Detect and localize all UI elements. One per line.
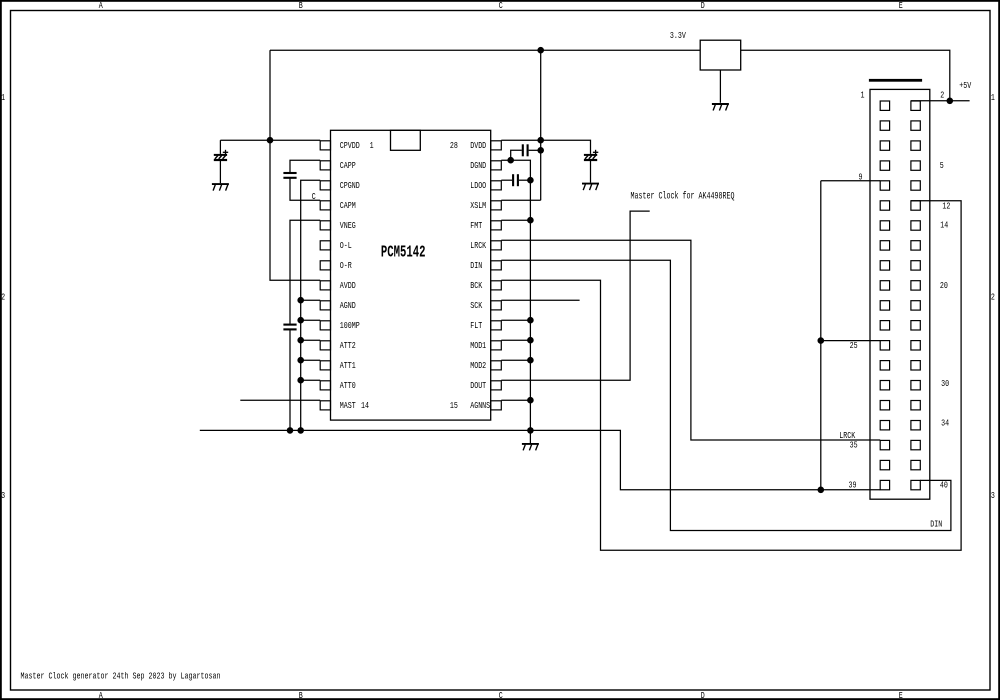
svg-text:D: D — [701, 690, 705, 700]
connector J1 pin 34 — [911, 421, 920, 430]
svg-text:O-R: O-R — [340, 260, 352, 271]
wire CPGND rail — [301, 180, 321, 430]
U1 pin box AVDD — [320, 281, 330, 290]
connector J1 pin 38 — [911, 460, 920, 469]
svg-text:AGNNS: AGNNS — [470, 400, 490, 411]
svg-text:C: C — [499, 0, 503, 11]
capacitor C6 bottom lead — [590, 160, 592, 183]
junction FLT / DGND rail — [527, 317, 534, 324]
connector J1 pin 16 — [911, 241, 920, 250]
capacitor C4 left lead / LDOO — [501, 179, 512, 181]
svg-text:Master Clock for AK4498REQ: Master Clock for AK4498REQ — [631, 190, 735, 202]
svg-text:CPGND: CPGND — [340, 180, 360, 191]
svg-text:+5V: +5V — [959, 80, 971, 91]
svg-text:CAPP: CAPP — [340, 160, 356, 171]
svg-text:MAST: MAST — [340, 400, 356, 411]
svg-text:9: 9 — [859, 171, 863, 182]
svg-text:FLT: FLT — [470, 320, 482, 331]
svg-text:ATT1: ATT1 — [340, 360, 356, 371]
svg-text:BCK: BCK — [470, 280, 482, 291]
capacitor C3 left lead — [511, 150, 522, 160]
svg-text:25: 25 — [850, 340, 858, 351]
capacitor C4 right lead — [519, 179, 531, 181]
svg-text:ATT0: ATT0 — [340, 380, 356, 391]
svg-text:FMT: FMT — [470, 220, 482, 231]
svg-text:PCM5142: PCM5142 — [381, 243, 426, 262]
svg-text:3.3V: 3.3V — [670, 30, 686, 41]
svg-text:E: E — [899, 690, 903, 700]
connector J1 pin 32 — [911, 401, 920, 410]
svg-text:40: 40 — [940, 479, 948, 490]
U1 orientation notch — [391, 130, 421, 150]
svg-text:E: E — [899, 0, 903, 11]
junction CPGND rail / ground rail — [297, 427, 304, 434]
wire ground vertical to header — [820, 181, 822, 490]
wire MOD2 — [501, 359, 530, 361]
connector J1 pin 21 — [880, 301, 889, 310]
U1 pin box DOUT — [491, 381, 502, 390]
connector J1 pin 2 — [911, 101, 920, 110]
svg-text:DOUT: DOUT — [470, 380, 486, 391]
wire 3.3V rail drop to DVDD/XSLM — [540, 50, 542, 200]
U1 pin box FLT — [491, 321, 502, 330]
capacitor C2 (VNEG bypass) — [283, 325, 296, 330]
U1 pin box VNEG — [320, 221, 330, 230]
connector J1 pin 33 — [880, 421, 889, 430]
svg-text:DGND: DGND — [470, 160, 486, 171]
svg-text:ATT2: ATT2 — [340, 340, 356, 351]
wire BCK net — [501, 201, 961, 551]
connector J1 pin 24 — [911, 321, 920, 330]
capacitor C5 bottom lead — [219, 160, 221, 183]
connector J1 pin 31 — [880, 401, 889, 410]
svg-text:2: 2 — [1, 292, 5, 303]
U1 pin box AGND — [320, 301, 330, 310]
svg-text:15: 15 — [450, 400, 458, 411]
connector J1 pin 28 — [911, 361, 920, 370]
U1 pin box ATT1 — [320, 361, 330, 370]
ground below regulator — [712, 104, 729, 111]
svg-text:2: 2 — [991, 292, 995, 303]
wire MOD1 — [501, 339, 530, 341]
U1 pin box XSLM — [491, 201, 502, 210]
capacitor C3 (DVDD-DGND) — [523, 144, 528, 156]
U1 pin box BCK — [491, 281, 502, 290]
ground below C5 — [212, 184, 229, 191]
wire LRCK net — [501, 240, 880, 440]
wire MAST stub — [240, 399, 320, 401]
voltage regulator 3.3V — [700, 40, 741, 70]
svg-text:LRCK: LRCK — [470, 240, 486, 251]
svg-text:CAPM: CAPM — [340, 200, 356, 211]
svg-text:LDOO: LDOO — [470, 180, 486, 191]
wire header pin9 ground — [821, 180, 880, 182]
ground below IC rail — [522, 444, 539, 451]
U1 pin box O-R — [320, 261, 330, 270]
connector J1 pin 40 — [911, 480, 920, 489]
junction ATT0 / CPGND rail — [297, 377, 304, 384]
connector J1 pin 12 — [911, 201, 920, 210]
svg-text:B: B — [299, 0, 303, 11]
U1 pin box ATT0 — [320, 381, 330, 390]
wire ATT0 — [301, 379, 321, 381]
connector J1 pin 25 — [880, 341, 889, 350]
U1 pin box CAPM — [320, 201, 330, 210]
U1 pin box ATT2 — [320, 341, 330, 350]
capacitor C6 polarized (DVDD bypass) — [584, 150, 598, 160]
connector J1 polarity bar — [869, 79, 922, 82]
wire CPVDD — [220, 139, 320, 141]
junction ground rail / DGND rail — [527, 427, 534, 434]
svg-text:DVDD: DVDD — [470, 140, 486, 151]
svg-text:30: 30 — [941, 378, 949, 389]
svg-text:34: 34 — [941, 418, 949, 429]
ground below C6 — [582, 184, 599, 191]
svg-text:12: 12 — [942, 200, 950, 211]
connector J1 pin 37 — [880, 460, 889, 469]
svg-text:100MP: 100MP — [340, 320, 360, 331]
connector J1 pin 13 — [880, 221, 889, 230]
connector J1 pin 8 — [911, 161, 920, 170]
U1 pin box CAPP — [320, 161, 330, 170]
junction AGND / CPGND rail — [297, 297, 304, 304]
junction +5V — [947, 98, 954, 105]
capacitor C2 bottom lead — [289, 329, 291, 430]
svg-text:39: 39 — [849, 479, 857, 490]
wire XSLM to 3.3V — [501, 199, 540, 201]
wire DOUT to master clock stub — [501, 211, 649, 380]
connector J1 pin 11 — [880, 201, 889, 210]
svg-text:1: 1 — [991, 92, 995, 103]
wire ground stub below IC — [529, 430, 531, 443]
wire +5V net / connector pin2 — [911, 100, 970, 102]
capacitor C5 polarized (CPVDD bypass) — [214, 150, 228, 160]
wire regulator ground stub — [719, 70, 721, 103]
svg-text:1: 1 — [1, 92, 5, 103]
junction 3.3V rail / DVDD drop — [537, 47, 544, 54]
svg-text:CPVDD: CPVDD — [340, 140, 360, 151]
junction pin39 ground — [818, 487, 825, 494]
U1 pin box AGNNS — [491, 401, 502, 410]
connector J1 pin 26 — [911, 341, 920, 350]
connector J1 pin 15 — [880, 241, 889, 250]
wire 3.3V rail top — [270, 49, 700, 51]
junction ATT2 / CPGND rail — [297, 337, 304, 344]
wire ground rail bottom to pin39 — [200, 430, 880, 489]
svg-text:O-L: O-L — [340, 240, 352, 251]
svg-text:5: 5 — [940, 160, 944, 171]
U1 pin box MOD1 — [491, 341, 502, 350]
connector J1 pin 23 — [880, 321, 889, 330]
junction DVDD / 3.3V drop — [537, 137, 544, 144]
capacitor C3 right lead — [529, 149, 541, 151]
connector J1 pin 3 — [880, 121, 889, 130]
connector J1 pin 6 — [911, 141, 920, 150]
svg-text:MOD1: MOD1 — [470, 340, 486, 351]
svg-text:20: 20 — [940, 280, 948, 291]
wire DVDD — [501, 140, 590, 154]
U1 pin box DIN — [491, 261, 502, 270]
U1 pin box 100MP — [320, 321, 330, 330]
connector J1 pin 35 — [880, 440, 889, 449]
connector J1 pin 22 — [911, 301, 920, 310]
junction DGND / C3 lead — [507, 157, 514, 164]
junction pin25 ground — [818, 337, 825, 344]
connector J1 pin 1 — [880, 101, 889, 110]
IC U1 body PCM5142 — [331, 130, 491, 420]
U1 pin box LDOO — [491, 181, 502, 190]
connector J1 pin 7 — [880, 161, 889, 170]
U1 pin box DVDD — [491, 141, 502, 150]
svg-text:3: 3 — [991, 490, 995, 501]
svg-text:3: 3 — [1, 490, 5, 501]
svg-text:Master Clock generator 24th Se: Master Clock generator 24th Sep 2023 by … — [21, 671, 221, 682]
junction C3 / 3.3V drop — [537, 147, 544, 154]
wire FMT — [501, 219, 530, 221]
connector J1 pin 19 — [880, 281, 889, 290]
wire DIN net — [501, 260, 951, 530]
svg-text:B: B — [299, 690, 303, 700]
junction MOD2 / DGND rail — [527, 357, 534, 364]
wire AGNNS — [501, 399, 530, 401]
svg-text:2: 2 — [940, 89, 944, 100]
svg-text:DIN: DIN — [470, 260, 482, 271]
svg-text:AGND: AGND — [340, 300, 356, 311]
connector J1 pin 36 — [911, 440, 920, 449]
connector J1 pin 30 — [911, 381, 920, 390]
wire header pin25 ground — [821, 340, 880, 342]
svg-text:A: A — [99, 690, 103, 700]
svg-text:AVDD: AVDD — [340, 280, 356, 291]
svg-text:14: 14 — [361, 400, 369, 411]
junction CPVDD / 3.3V drop — [267, 137, 274, 144]
connector J1 pin 20 — [911, 281, 920, 290]
capacitor C5 top lead — [219, 140, 221, 154]
junction ATT1 / CPGND rail — [297, 357, 304, 364]
junction C2 / ground rail — [287, 427, 294, 434]
svg-text:14: 14 — [940, 219, 948, 230]
svg-text:MOD2: MOD2 — [470, 360, 486, 371]
wire AGND — [301, 299, 321, 301]
connector J1 pin 4 — [911, 121, 920, 130]
connector J1 pin 14 — [911, 221, 920, 230]
U1 pin box MAST — [320, 401, 330, 410]
svg-text:28: 28 — [450, 140, 458, 151]
connector J1 pin 10 — [911, 181, 920, 190]
svg-text:VNEG: VNEG — [340, 220, 356, 231]
U1 pin box CPVDD — [320, 141, 330, 150]
wire ATT1 — [301, 359, 321, 361]
wire ATT2 — [301, 339, 321, 341]
U1 pin box FMT — [491, 221, 502, 230]
connector J1 body — [870, 89, 930, 499]
connector J1 pin 5 — [880, 141, 889, 150]
wire 3.3V rail drop to CPVDD — [269, 50, 271, 140]
U1 pin box LRCK — [491, 241, 502, 250]
connector J1 pin 9 — [880, 181, 889, 190]
U1 pin box O-L — [320, 241, 330, 250]
connector J1 pin 29 — [880, 381, 889, 390]
svg-text:1: 1 — [370, 140, 374, 151]
wire FLT — [501, 319, 530, 321]
wire regulator output to +5V — [741, 50, 950, 101]
junction MOD1 / DGND rail — [527, 337, 534, 344]
connector J1 pin 39 — [880, 480, 889, 489]
junction FMT / DGND rail — [527, 217, 534, 224]
U1 pin box SCK — [491, 301, 502, 310]
junction AGNNS / DGND rail — [527, 397, 534, 404]
wire VNEG — [290, 220, 320, 323]
svg-text:SCK: SCK — [470, 300, 482, 311]
svg-text:DIN: DIN — [930, 519, 942, 530]
capacitor C4 (LDOO bypass) — [513, 174, 518, 186]
U1 pin box CPGND — [320, 181, 330, 190]
svg-text:D: D — [701, 0, 705, 11]
svg-text:C: C — [312, 191, 316, 202]
wire DGND rail — [501, 160, 530, 430]
connector J1 pin 18 — [911, 261, 920, 270]
U1 pin box MOD2 — [491, 361, 502, 370]
wire AVDD from 3.3V — [270, 140, 320, 280]
svg-text:A: A — [99, 0, 103, 11]
wire CAPP — [290, 160, 320, 172]
svg-text:35: 35 — [850, 439, 858, 450]
wire CAPM — [290, 178, 320, 200]
connector J1 pin 17 — [880, 261, 889, 270]
svg-text:1: 1 — [861, 89, 865, 100]
connector J1 pin 27 — [880, 361, 889, 370]
wire 100MP — [301, 319, 321, 321]
svg-text:XSLM: XSLM — [470, 200, 486, 211]
capacitor C1 (CAPP-CAPM) — [283, 173, 296, 178]
U1 pin box DGND — [491, 161, 502, 170]
junction 100MP / CPGND rail — [297, 317, 304, 324]
junction C4 / DGND rail — [527, 177, 534, 184]
wire SCK stub — [501, 299, 579, 301]
svg-text:C: C — [499, 690, 503, 700]
